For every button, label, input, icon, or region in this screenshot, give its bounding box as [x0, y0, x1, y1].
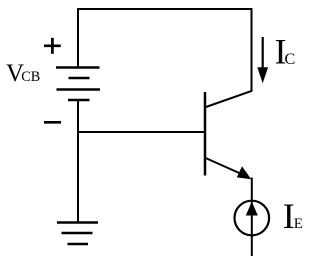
wire battery bottom to ground: [77, 100, 79, 222]
transistor Q1 collector lead: [205, 91, 253, 108]
svg-text:C: C: [285, 51, 296, 68]
wire emitter corner down to current source: [251, 178, 253, 257]
label plus sign: [44, 38, 61, 54]
battery plate short: [69, 77, 90, 79]
wire base branch horizontal: [77, 131, 205, 133]
transistor Q1 emitter arrowhead: [237, 166, 251, 179]
ground: [57, 223, 98, 245]
battery plate short bottom: [68, 99, 90, 101]
I_C arrow shaft: [262, 37, 264, 70]
battery V_CB plate long top: [56, 66, 100, 68]
current source arrowhead (up): [246, 202, 258, 216]
label minus sign: [44, 121, 61, 124]
current source I_E circle: [235, 201, 270, 236]
svg-text:CB: CB: [21, 69, 40, 85]
transistor Q1 base bar: [204, 92, 207, 176]
battery plate long: [57, 88, 101, 90]
transistor Q1 emitter lead: [205, 158, 248, 177]
I_C arrowhead (down): [257, 67, 268, 83]
svg-text:E: E: [294, 216, 303, 232]
wire left vertical (top to battery): [77, 8, 79, 68]
wire top horizontal: [77, 8, 253, 10]
wire right vertical (top to collector corner): [251, 8, 253, 92]
